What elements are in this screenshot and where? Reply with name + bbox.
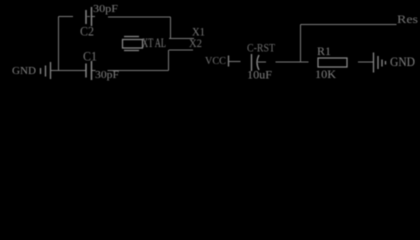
svg-text:C2: C2 [80,25,94,39]
wire bottom rail right [92,70,96,72]
svg-text:VCC: VCC [205,55,226,67]
capacitor C2 [86,7,92,26]
svg-text:C1: C1 [83,50,97,64]
wire bottom rail to X2 [108,70,169,72]
svg-text:C-RST: C-RST [247,41,276,55]
wire left vertical [58,17,60,71]
ground symbol right [374,53,386,73]
svg-text:10K: 10K [315,67,336,81]
svg-text:GND: GND [12,66,36,77]
wire vertical X2 to rail [168,50,170,71]
svg-text:Res: Res [397,12,418,26]
svg-text:10uF: 10uF [247,68,272,82]
wire junction vertical [300,25,302,63]
svg-text:30pF: 30pF [93,3,118,15]
svg-text:GND: GND [390,54,415,69]
svg-text:R1: R1 [317,44,331,58]
crystal XTAL [123,37,143,51]
wire cap stub [258,61,266,63]
svg-text:X1: X1 [192,27,205,39]
wire top to X1 [108,16,171,18]
svg-text:30pF: 30pF [95,69,119,81]
power VCC terminal bar [228,56,230,67]
svg-text:XT AL: XT AL [142,36,166,50]
wire vertical to X1 [170,17,172,39]
wire top left [59,16,74,18]
svg-text:X2: X2 [189,38,202,50]
wire cap to junction [276,61,309,63]
wire VCC [229,61,241,63]
capacitor C1 [86,61,92,80]
resistor R1 [318,58,347,67]
wire between C2 plates (scan ghost) [87,16,90,18]
node X2 stub [169,49,193,51]
wire bottom rail left [51,70,86,72]
wire top right rail [301,24,397,26]
wire R1 to ground [358,61,373,63]
capacitor C-RST [252,54,260,71]
wire C2 right stub [92,16,95,18]
node X1 stub [169,38,194,40]
ground symbol left [41,62,51,79]
